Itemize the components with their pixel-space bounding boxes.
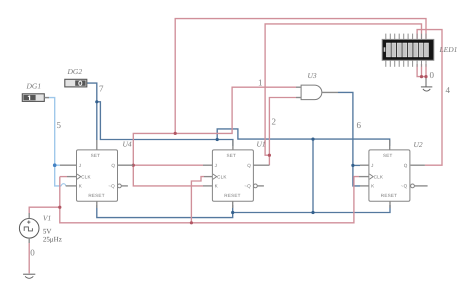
junction net7 at U1 SET [216,138,219,141]
wire V1 to ground [28,243,30,273]
junction net6 at U2 J [351,164,354,167]
svg-text:1: 1 [258,78,263,88]
junction net7 at U1 RESET [231,211,234,214]
svg-text:Q: Q [111,163,115,168]
svg-text:U1: U1 [257,140,266,149]
svg-text:6: 6 [357,120,362,130]
junction net7 below DG2 [95,100,98,103]
svg-text:U4: U4 [123,140,132,149]
junction net7 on RESET rail [311,211,314,214]
flip-flop U1 [203,140,269,209]
junction net3 at V1 [58,206,61,209]
svg-text:CLK: CLK [217,174,227,179]
svg-text:Q: Q [404,163,408,168]
flip-flop U2 [359,140,428,208]
svg-text:SET: SET [383,153,393,158]
svg-text:RESET: RESET [381,193,397,198]
svg-text:5: 5 [57,120,62,130]
wire net5 DG1 to U4 J/K [44,98,65,186]
svg-text:J: J [79,163,82,168]
digital constant DG1 [22,82,49,102]
wire net7 DG2 to SET rail [87,83,390,212]
junction net7 on SET rail [311,138,314,141]
wire net7 RESET rail [97,205,390,218]
svg-text:U2: U2 [414,140,423,149]
svg-text:CLK: CLK [374,174,384,179]
junction net1 at U4 Q [132,164,135,167]
svg-text:Q: Q [247,163,251,168]
svg-text:2: 2 [272,117,277,127]
svg-text:0: 0 [30,248,35,258]
svg-text:4: 4 [446,85,451,95]
svg-text:~Q: ~Q [244,184,251,189]
svg-text:RESET: RESET [88,193,104,198]
svg-text:U3: U3 [308,71,317,80]
digital constant DG2 [65,67,87,87]
junction net0 b [424,75,427,78]
svg-text:SET: SET [91,153,101,158]
svg-text:DG2: DG2 [67,67,83,76]
ground at LED [421,87,432,91]
wire net2 U1 Q to AND input and LED [265,24,421,165]
junction net2 [268,154,271,157]
LED bargraph LED1 [382,34,457,67]
svg-text:J: J [371,163,374,168]
junction net5 at U4 J [53,163,57,167]
svg-text:RESET: RESET [224,193,240,198]
wire net6 AND output to U2 J/K [338,92,360,185]
svg-text:25μHz: 25μHz [43,236,62,244]
wire net4 U2 Q to LED [417,30,442,166]
junction net0 [420,75,423,78]
svg-text:CLK: CLK [81,174,91,179]
svg-text:7: 7 [99,83,104,93]
svg-text:J: J [215,163,218,168]
junction net1 LED branch [174,132,177,135]
svg-text:5V: 5V [43,227,52,235]
voltage source V1 clock [19,213,61,244]
wire net0 LED cathodes to ground [417,64,426,87]
svg-text:0: 0 [430,70,435,80]
svg-text:SET: SET [227,153,237,158]
svg-text:~Q: ~Q [108,184,115,189]
flip-flop U4 [60,140,133,209]
svg-text:V1: V1 [43,214,51,223]
ground at V1 [23,274,35,278]
wire net1 U4 Q to AND input and LED [133,19,426,186]
svg-text:LED1: LED1 [439,45,458,54]
wire net3 clock rail from V1 [29,177,359,223]
svg-text:~Q: ~Q [401,184,408,189]
AND gate U3 [296,71,338,100]
svg-text:DG1: DG1 [26,82,42,91]
junction net3 at U1 CLK riser [190,221,193,224]
